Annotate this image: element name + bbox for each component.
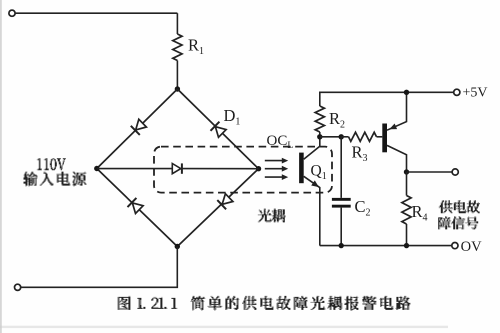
optocoupler OC1 dashed box [154, 147, 332, 193]
terminal 110V input bottom [15, 284, 21, 290]
label 供电故 (supply fault line1) [439, 200, 480, 213]
wire output to terminal [407, 171, 454, 173]
capacitor C2 [332, 198, 351, 208]
node R3 / C2 [339, 134, 344, 139]
svg-text:OV: OV [461, 239, 482, 255]
wire LED to bridge right [182, 168, 259, 170]
node C2 / 0V rail [339, 243, 344, 248]
svg-text:C2: C2 [355, 197, 371, 219]
wire Q1 collector [304, 137, 320, 159]
resistor R2 [315, 106, 324, 132]
wire Q1 emitter [304, 176, 320, 245]
caption 图1.21.1 简单的供电故障光耦报警电路 [117, 296, 410, 311]
svg-text:R3: R3 [352, 143, 368, 165]
node Q2 collector / output [404, 169, 409, 174]
terminal +5V [454, 89, 460, 95]
wire bridge left to LED [97, 168, 173, 170]
terminal fault signal output [452, 169, 458, 175]
light arrow 2 [265, 166, 288, 172]
svg-text:Q1: Q1 [311, 163, 327, 183]
diode D1 bridge top-right [211, 122, 227, 138]
wire top rail [15, 12, 177, 14]
node bridge right (DC-) [256, 166, 261, 171]
light arrow 3 [265, 174, 288, 180]
wire Q2 collector [387, 145, 407, 172]
wire node to R3 [341, 136, 348, 138]
resistor R3 [349, 132, 377, 141]
node Q1 collector / R2 [317, 134, 322, 139]
node bridge bottom [175, 244, 180, 249]
wire bridge bottom to input terminal [21, 247, 177, 288]
phototransistor Q1 base bar [299, 153, 304, 184]
wire node to C2 [340, 137, 342, 198]
terminal 0V [452, 243, 458, 249]
diode bridge bottom-left [128, 198, 144, 214]
wire bridge arm bottom-left [97, 169, 178, 247]
svg-text:+5V: +5V [463, 86, 488, 101]
resistor R4 [402, 196, 411, 225]
wire bridge arm bottom-right [177, 169, 258, 247]
diode bridge bottom-right [217, 194, 233, 210]
wire +5V rail [320, 92, 454, 106]
LED optocoupler input diode [172, 163, 182, 173]
svg-text:OCL: OCL [267, 133, 294, 151]
node Q2 emitter / +5V rail [404, 90, 409, 95]
wire bridge arm top-left [97, 89, 178, 169]
wire down to R1 [176, 13, 178, 34]
resistor R1 [173, 34, 182, 61]
wire 0V rail [320, 245, 454, 247]
scan edge bottom [0, 326, 448, 328]
svg-text:R1: R1 [188, 36, 204, 58]
wire C2 to 0V rail [340, 208, 342, 246]
wire bridge arm top-right [177, 89, 258, 169]
transistor Q2 base bar [382, 124, 387, 153]
label 障信号 (fault signal line2) [438, 216, 478, 229]
svg-text:D1: D1 [224, 106, 241, 128]
node bridge top [175, 86, 180, 91]
svg-text:R4: R4 [412, 202, 428, 224]
wire Q2 emitter to +5V [387, 92, 407, 130]
wire node to node [320, 136, 341, 138]
label 光耦 (optocoupler) [258, 208, 286, 222]
diode bridge top-left [131, 119, 147, 135]
scan edge left [0, 0, 2, 333]
node bridge left (DC+) [94, 166, 99, 171]
wire collector to R4 [406, 172, 408, 196]
label 输入电源 (input power) [24, 172, 87, 187]
node R4 / 0V rail [404, 243, 409, 248]
wire R3 to Q2 base [377, 136, 383, 138]
label 110V [37, 158, 66, 170]
light arrow 1 [265, 158, 288, 164]
wire R4 to 0V rail [406, 224, 408, 246]
wire R2 bottom [319, 132, 321, 137]
wire R1 to bridge top [176, 61, 178, 90]
terminal 110V input top [9, 10, 15, 16]
svg-text:R2: R2 [329, 109, 345, 131]
